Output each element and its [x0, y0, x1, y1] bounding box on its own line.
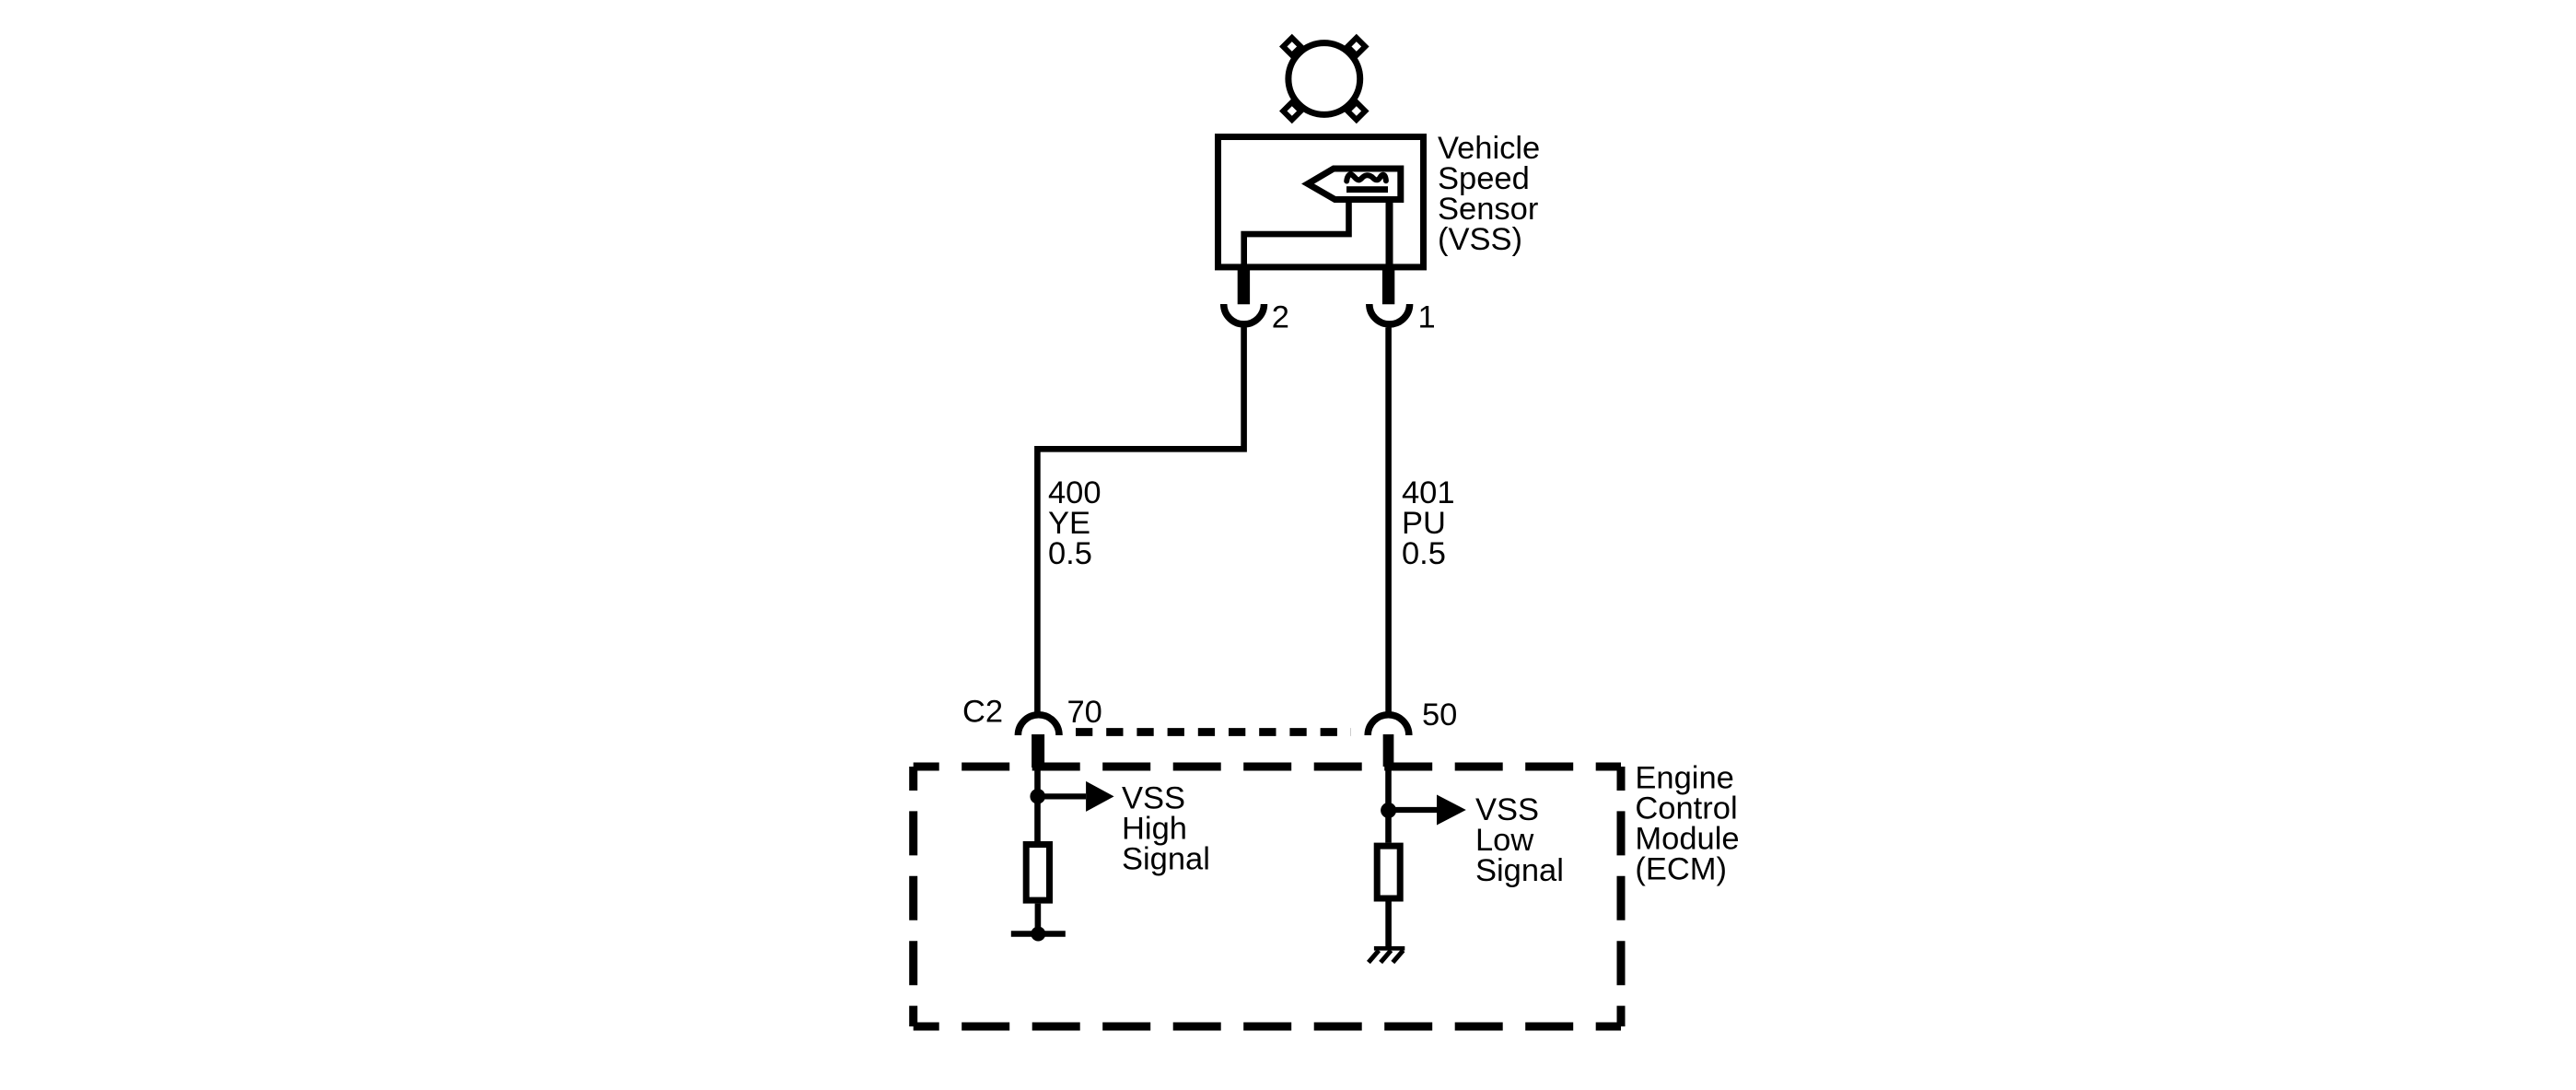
- svg-text:C2: C2: [962, 694, 1003, 729]
- svg-text:Signal: Signal: [1475, 853, 1564, 888]
- svg-text:0.5: 0.5: [1048, 536, 1092, 571]
- svg-text:70: 70: [1067, 695, 1102, 730]
- svg-text:2: 2: [1272, 299, 1289, 334]
- svg-text:(VSS): (VSS): [1438, 222, 1522, 257]
- svg-text:0.5: 0.5: [1402, 536, 1446, 571]
- svg-text:50: 50: [1422, 697, 1457, 733]
- svg-text:1: 1: [1418, 299, 1436, 334]
- svg-text:(ECM): (ECM): [1635, 852, 1727, 887]
- svg-text:Signal: Signal: [1122, 841, 1210, 876]
